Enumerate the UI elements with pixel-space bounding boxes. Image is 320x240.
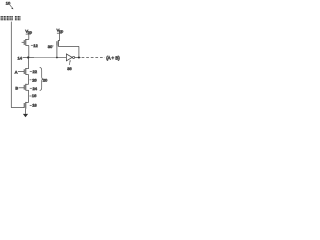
bracket 20 grouping A/B transistors [40,67,43,90]
svg-text:20: 20 [43,78,48,83]
junction dot node 14 [27,56,29,58]
memory cell block text (메모리셀 블록 blobs) [1,16,21,20]
wire dashed output line [82,57,105,59]
ground [23,114,28,117]
svg-text:24: 24 [33,86,38,91]
label 16 [29,95,31,97]
svg-text:16: 16 [32,93,37,98]
wire VDD to Q12 drain [28,34,30,39]
svg-text:18: 18 [32,103,37,108]
label 22 [30,71,32,73]
svg-text:DD: DD [59,29,63,33]
wire inverter output [74,57,80,59]
inverter U36 [66,54,72,61]
transistor Q24 input B [26,83,29,85]
svg-text:12: 12 [33,43,38,48]
junction dot output node [78,56,80,58]
label 24 [30,87,32,89]
label 26 [30,79,32,81]
svg-text:10: 10 [6,1,11,6]
svg-text:A: A [15,69,18,74]
transistor Q22 input A [28,58,30,69]
leader arrow from 10 [10,5,12,8]
wire node 16 below B [28,90,30,102]
wire node 26 between A and B [28,75,30,85]
transistor Q18 (enable from memory block) [26,101,29,103]
svg-text:36: 36 [67,66,72,71]
wire Q30 source to output node [58,45,79,47]
wire bit line to gate of Q18 [11,107,24,109]
transistor Q30 (PMOS keeper) [58,40,59,42]
svg-text:B: B [15,86,18,91]
label 36 [69,60,72,65]
svg-text:30: 30 [48,44,53,49]
wire Q30 gate down to node 14 rail [56,46,58,58]
wire node 14 horizontal rail [23,57,34,59]
wire VDD to Q30 drain [59,33,61,40]
wire Q12 source down to node 14 [28,46,30,58]
svg-text:14: 14 [18,56,23,61]
svg-text:22: 22 [33,69,38,74]
label 18 [30,105,32,107]
label 12 [31,44,33,46]
svg-text:(A + B): (A + B) [106,55,120,60]
wire bit line from memory block down [10,22,12,108]
svg-text:26: 26 [32,77,37,82]
transistor Q12 (PMOS load) [26,39,29,41]
